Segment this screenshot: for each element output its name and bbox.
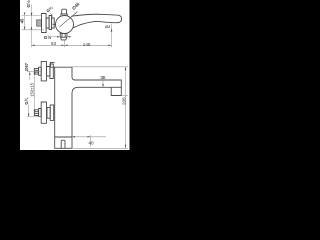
svg-text:150±15: 150±15 [30,82,35,97]
svg-text:36: 36 [100,75,106,80]
svg-text:∅2: ∅2 [105,25,110,29]
svg-text:G½: G½ [44,34,52,40]
svg-text:145: 145 [83,42,91,47]
svg-text:∅67: ∅67 [24,62,29,71]
svg-text:G½: G½ [25,0,31,8]
svg-text:205: 205 [122,97,127,105]
svg-text:G¾: G¾ [24,97,29,104]
svg-text:40: 40 [88,141,94,146]
svg-text:63: 63 [51,41,57,46]
svg-text:45: 45 [20,18,25,23]
